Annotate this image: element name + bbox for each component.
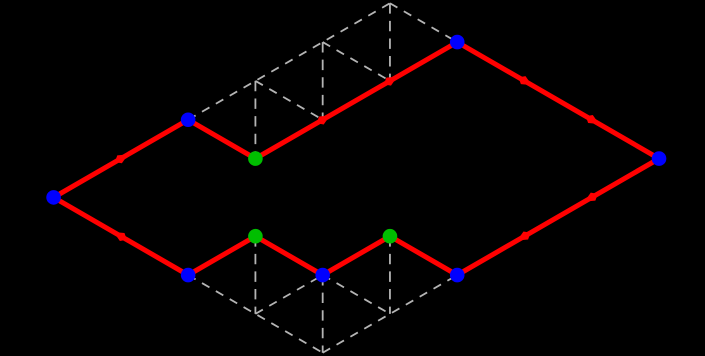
dashed lattice edge: SE A1 to M1 xyxy=(255,81,322,120)
arrow NW on segment BL-L at B1 xyxy=(114,232,127,241)
node BR blue xyxy=(450,268,465,283)
dashed lattice edge: vertical A2 to M1 xyxy=(322,42,324,120)
node green3 xyxy=(383,229,398,244)
arrow SE on segment top-right at T1 xyxy=(518,76,531,85)
dashed lattice edge: vertical green3 to H2 xyxy=(389,236,391,314)
wire: red closed lattice path L-UL-green1-top-right-BR-green3-mid-green2-BL xyxy=(54,42,659,275)
arrow SE on segment top-right at T2 xyxy=(586,115,599,124)
node UL blue xyxy=(181,112,196,127)
dashed lattice edge: upper NE hull UL to top apex xyxy=(188,3,390,119)
dashed lattice edge: SE from top apex to node top xyxy=(390,3,457,42)
node L blue xyxy=(46,190,61,205)
arrow NE on segment green1-top at M1 xyxy=(317,115,330,124)
node green2 xyxy=(248,229,263,244)
dashed lattice edge: SE mid to H2 xyxy=(323,275,390,314)
dashed lattice edge: vertical green2 to H1 xyxy=(254,236,256,314)
node right blue xyxy=(652,151,667,166)
node top blue xyxy=(450,35,465,50)
dashed lattice edge: SE A2 to M2 xyxy=(323,42,390,81)
node BL blue xyxy=(181,268,196,283)
node green1 xyxy=(248,151,263,166)
arrow SW on segment right-BR at R2 xyxy=(517,232,530,241)
dashed lattice edge: lower SE hull BL to bottom apex xyxy=(188,275,323,353)
dashed lattice edge: vertical mid to bottom apex xyxy=(322,275,324,353)
dashed lattice edge: vertical A1 to green1 xyxy=(254,81,256,159)
dashed lattice edge: vertical top apex to M2 xyxy=(389,3,391,81)
arrow NE on segment green1-top at M2 xyxy=(384,77,397,86)
arrow NE on segment L-UL at P1 xyxy=(115,154,128,163)
node mid blue xyxy=(315,268,330,283)
dashed lattice edge: NE H1 to mid xyxy=(255,275,322,314)
dashed lattice edge: lower NE hull bottom apex to BR xyxy=(323,275,458,353)
arrow SW on segment right-BR at R1 xyxy=(584,193,597,202)
